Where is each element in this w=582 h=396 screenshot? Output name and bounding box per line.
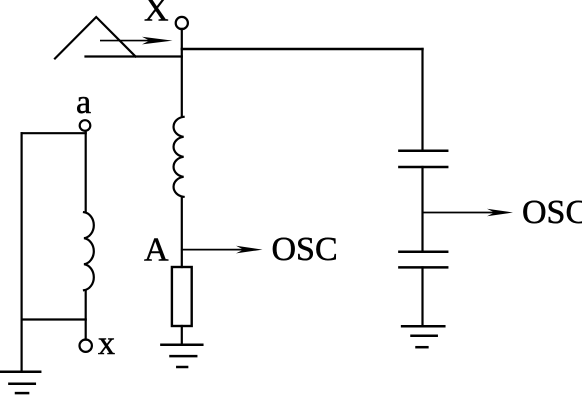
svg-text:OSC: OSC [272,231,338,268]
svg-text:A: A [144,232,169,269]
svg-text:a: a [76,84,91,121]
svg-text:x: x [98,325,115,362]
svg-text:OSC: OSC [522,194,582,231]
svg-text:X: X [144,0,169,29]
